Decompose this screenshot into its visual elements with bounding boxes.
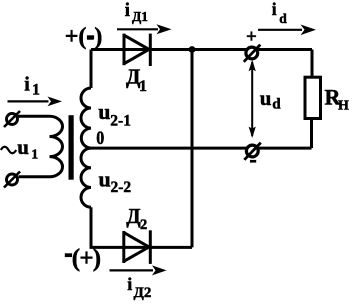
svg-text:i: i (272, 0, 277, 19)
label Д1 (126, 65, 147, 96)
wire: top rail from secondary top corner to resistor corner (91, 48, 312, 51)
transformer T1 primary winding with input wires (19, 116, 63, 176)
svg-text:u: u (99, 167, 111, 192)
label ~u1 (1, 135, 39, 163)
terminal: output + Ø (244, 45, 260, 62)
terminal: output - Ø (244, 143, 260, 160)
label u2-2 (99, 167, 132, 197)
current arrow i_d (258, 25, 316, 36)
svg-text:2-2: 2-2 (111, 179, 132, 196)
svg-text:d: d (272, 97, 281, 113)
svg-text:u: u (260, 86, 272, 110)
svg-text:i: i (125, 1, 130, 21)
svg-text:i: i (24, 74, 30, 96)
svg-text:2-1: 2-1 (110, 112, 131, 129)
svg-text:u: u (98, 99, 110, 124)
svg-text:1: 1 (32, 82, 40, 99)
transformer T1 secondary winding upper half u2-1 (81, 88, 91, 148)
svg-text:Д2: Д2 (134, 285, 152, 301)
wire: bottom rail from center tap through minus terminal to resistor (90, 147, 312, 150)
current arrow i_Д1 (117, 24, 172, 34)
svg-text:Д1: Д1 (132, 9, 148, 24)
label i_Д1 (125, 1, 148, 24)
label i_Д2 (127, 274, 151, 301)
wire: resistor bottom down to bottom rail (310, 120, 313, 148)
svg-text:1: 1 (139, 78, 147, 95)
wire: secondary bottom down and D2 output rail (91, 207, 192, 247)
label u_d (260, 86, 282, 113)
label -(+) polarity bottom (65, 245, 101, 272)
current arrow i_Д2 (110, 265, 167, 275)
svg-text:(+): (+) (72, 245, 101, 272)
svg-text:+(-): +(-) (65, 24, 103, 50)
label i_1 (24, 74, 40, 99)
label i_d (272, 0, 288, 26)
label u2-1 (98, 99, 131, 129)
svg-text:i: i (127, 274, 132, 294)
svg-text:Н: Н (338, 99, 349, 114)
wire: vertical from junction on top rail down to D2 output rail (191, 50, 194, 248)
wire: input top from terminal to primary (16, 115, 20, 118)
svg-text:0: 0 (96, 128, 104, 149)
diode D2 (124, 230, 151, 264)
label RH (325, 85, 350, 114)
diode D1 (124, 34, 150, 66)
label Д2 (126, 204, 147, 233)
label +(-) polarity top (65, 24, 103, 50)
resistor RH (305, 77, 321, 118)
svg-text:+: + (246, 26, 257, 47)
label - (negative output) (250, 160, 256, 163)
current arrow i_1 (8, 97, 63, 107)
junction dot (node where D1 cathode, + terminal and D2 wire meet) (189, 46, 196, 53)
terminal: input top Ø (4, 111, 20, 127)
transformer core (69, 115, 74, 180)
svg-text:2: 2 (140, 217, 147, 233)
wire: vertical from top rail down to secondary winding top (90, 50, 93, 89)
svg-text:1: 1 (31, 148, 38, 163)
wire: right vertical from top rail corner down to resistor top (311, 50, 314, 78)
voltage arrow u_d (double headed) (249, 60, 256, 138)
svg-text:d: d (279, 11, 287, 26)
terminal: input bottom Ø (4, 172, 20, 188)
transformer T1 secondary winding lower half u2-2 (81, 148, 91, 207)
svg-text:u: u (17, 135, 29, 159)
